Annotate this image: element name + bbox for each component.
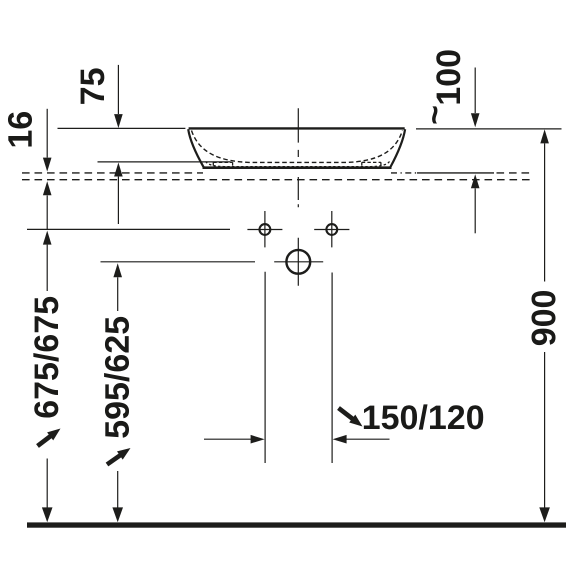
- rim level extension line left: [58, 127, 186, 129]
- drain hole crosshair: [274, 238, 323, 286]
- floor ground line: [27, 522, 566, 527]
- drain foot left (dashed box): [213, 162, 232, 168]
- basin inner bottom dotted line: [206, 162, 390, 167]
- dim ~100 lower arrow: [471, 174, 480, 233]
- dim 150/120 right arrow: [333, 435, 390, 444]
- inner bottom ledge line left: [98, 161, 231, 163]
- dim 675 upper arrow: [43, 231, 52, 291]
- dim 16 lower arrow: [43, 181, 52, 229]
- faucet hole right circle: [326, 224, 337, 235]
- dim 675 lower arrow to floor: [42, 459, 53, 523]
- big hole level line: [101, 261, 256, 263]
- label 150/120 leader arrow: [339, 408, 363, 427]
- washbasin left wall: [188, 129, 203, 167]
- small holes level line: [27, 228, 230, 230]
- dim 595 lower arrow to floor: [112, 471, 123, 522]
- dim 75 lower arrow: [114, 163, 123, 225]
- basin interior curve (hidden, dashed): [192, 131, 403, 163]
- dim 900 lower arrow to floor: [539, 352, 550, 522]
- counter level line A dashed left: [22, 172, 203, 174]
- dim 75 upper arrow: [114, 65, 123, 128]
- counter level line A solid segment: [417, 172, 494, 174]
- dim 150/120 left arrow: [204, 435, 265, 444]
- label 595/625 leader arrow: [107, 448, 131, 465]
- label 75: [81, 68, 105, 103]
- drain foot right (dashed box): [362, 162, 381, 168]
- label 595/625: [104, 317, 129, 438]
- label 675/675: [33, 297, 58, 418]
- washbasin rim top edge: [189, 127, 405, 129]
- dim 900 upper arrow: [540, 129, 549, 281]
- extension line below right hole: [331, 273, 333, 464]
- extension line below left hole: [264, 272, 266, 463]
- counter level line A dashed right end: [497, 172, 532, 174]
- faucet hole left circle: [260, 224, 271, 235]
- counter level line A dash-dot right of basin: [391, 172, 417, 174]
- label 16: [8, 112, 32, 146]
- washbasin right wall: [391, 129, 406, 167]
- faucet hole right crosshair: [314, 211, 349, 247]
- drain hole circle: [286, 250, 310, 274]
- faucet hole left crosshair: [247, 211, 282, 247]
- counter level line B dashed: [22, 179, 531, 181]
- label 150/120: [364, 404, 483, 429]
- washbasin bottom edge: [203, 166, 392, 169]
- dim 595 upper arrow: [113, 263, 122, 311]
- label 900: [531, 291, 555, 345]
- dim ~100 upper arrow: [471, 68, 480, 128]
- centerline of basin: [297, 108, 299, 207]
- dim 16 upper arrow: [43, 109, 52, 172]
- label 675/675 leader arrow: [38, 429, 61, 447]
- label ~100 tilde: [432, 106, 437, 123]
- rim level extension line right: [416, 128, 562, 130]
- label ~100 digits: [436, 50, 460, 103]
